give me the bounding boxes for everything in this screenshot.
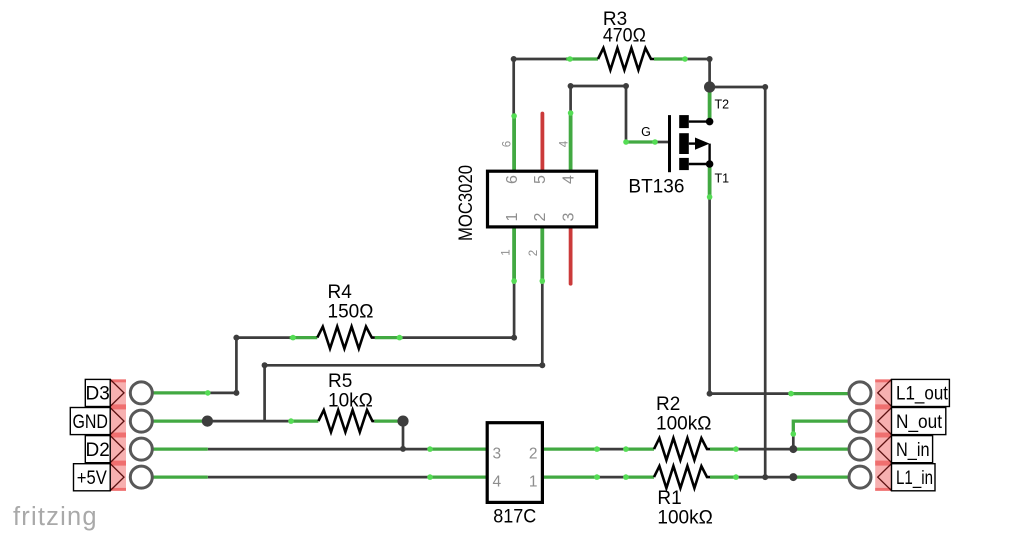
connector J2 chevrons: [878, 379, 892, 490]
svg-text:R5: R5: [328, 371, 352, 392]
op-amp U1 MOC3020 optocoupler body: [456, 165, 597, 241]
svg-text:100kΩ: 100kΩ: [656, 414, 711, 435]
wire: R5 output drop to D2 row: [402, 421, 405, 449]
svg-text:R4: R4: [328, 282, 353, 303]
svg-text:2: 2: [529, 446, 538, 463]
svg-text:4: 4: [560, 175, 577, 184]
wire: R2 left green lead: [627, 447, 654, 450]
svg-text:2: 2: [528, 250, 540, 256]
wire: N_out green wire and drop: [793, 421, 849, 436]
resistor R1 100k ohm: [654, 466, 713, 528]
pin numbers U1 outer leg labels: [501, 140, 571, 256]
label box D3: [85, 379, 110, 406]
svg-text:L1_out: L1_out: [896, 384, 949, 405]
green endpoint markers: [205, 56, 796, 480]
wire: 817C pin 2 green lead: [542, 447, 600, 450]
junction node: N_in junction: [789, 445, 797, 453]
wire: MOC pin 5 red unrouted leg: [541, 114, 545, 172]
junction node: pin4 wire corner right: [623, 83, 629, 89]
wire: R3 left lead from MOC pin 6 riser: [514, 59, 566, 114]
junction node: R3 right corner: [707, 56, 713, 62]
junction node: right bus on L1_in: [762, 474, 768, 480]
wire: D2 left green segment: [152, 447, 208, 450]
pin numbers U2: 3 2 4 1: [493, 446, 538, 491]
junction node: R4 left corner: [233, 335, 239, 341]
pin numbers U1 inner top 6 5 4: [504, 175, 577, 184]
label box D2: [85, 436, 110, 463]
junction node: R5 right junction: [397, 416, 408, 427]
svg-text:2: 2: [532, 212, 549, 221]
junction node: R3 left corner: [511, 56, 517, 62]
wire: triac T2 green leg: [708, 90, 712, 122]
wire: +5V left green segment: [152, 475, 208, 478]
wire: gate green segment: [626, 140, 658, 143]
label box +5V: [74, 464, 111, 491]
svg-text:4: 4: [493, 474, 502, 491]
svg-text:150Ω: 150Ω: [328, 302, 374, 323]
wire: +5V green into 817C pin 4: [430, 475, 487, 478]
wire: R4 right lead up to MOC pin 1: [403, 284, 514, 338]
wire: +5V row dark segment: [208, 476, 430, 479]
svg-text:1: 1: [504, 212, 521, 221]
wire: MOC pin 3 red unrouted leg: [569, 227, 573, 284]
transistor Q1 BT136 triac symbol: [668, 115, 710, 172]
svg-text:G: G: [641, 125, 651, 139]
wire: R5 right green lead: [374, 419, 403, 422]
pin numbers U1 inner bottom 1 2 3: [504, 212, 577, 221]
svg-text:T2: T2: [715, 98, 730, 112]
svg-text:MOC3020: MOC3020: [456, 165, 477, 241]
wire: L1_in green to circle: [793, 475, 849, 478]
svg-text:3: 3: [493, 446, 502, 463]
wire: junction to right bus down to L1_in row: [710, 87, 766, 477]
wire: GND green segment: [152, 419, 207, 422]
wire: N_out drop dark part: [792, 436, 795, 449]
wire: triac T1 green leg: [708, 164, 712, 200]
svg-text:4: 4: [558, 140, 570, 147]
svg-text:GND: GND: [72, 412, 108, 433]
wire: triac T1 down to L1_out row: [710, 200, 789, 394]
wire: R2 to N_in junction dark segment: [736, 448, 793, 451]
wire: R1 to L1_in junctions dark segment: [736, 476, 793, 479]
svg-text:D2: D2: [86, 440, 110, 461]
connector J1 chevrons: [110, 379, 124, 490]
junction node: pin2 wire corner left: [262, 362, 268, 368]
wire: R3 left green lead: [566, 57, 598, 60]
wire: MOC pin 2 green leg: [540, 227, 544, 284]
svg-text:10kΩ: 10kΩ: [328, 391, 373, 412]
wire: 817C pin 1 green lead: [542, 475, 600, 478]
svg-text:6: 6: [502, 141, 514, 147]
wire: N_in green to circle: [793, 447, 849, 450]
svg-text:1: 1: [501, 249, 513, 255]
connector J2 terminal circles: [849, 382, 871, 488]
svg-text:1: 1: [529, 474, 538, 491]
svg-text:L1_in: L1_in: [896, 468, 933, 489]
wire: MOC pin 6 green leg: [512, 114, 516, 172]
wire: D2 row dark segment: [208, 448, 430, 451]
svg-text:R2: R2: [656, 394, 680, 415]
wire: MOC pin 2 down and over to GND row: [265, 284, 543, 421]
junction node: L1_in bend: [789, 473, 797, 481]
junction node: L1_out corner: [707, 391, 713, 397]
svg-text:N_out: N_out: [896, 412, 943, 433]
label box N_in: [892, 436, 933, 463]
junction node: D3 corner: [233, 390, 239, 396]
connector J1 terminal circles: [130, 382, 152, 488]
svg-text:D3: D3: [86, 384, 110, 405]
wire: gate stub to triac bar: [658, 141, 669, 144]
junction node: pin2 wire corner right: [539, 362, 545, 368]
junction node: R4 right corner: [511, 335, 517, 341]
junction node: main T2 junction: [704, 81, 715, 92]
wire: D2 green into 817C pin 3: [430, 447, 487, 450]
wire: 817C pin 1 to R1 dark segment: [600, 476, 627, 479]
wire: D3 green segment: [152, 391, 208, 394]
wire: R4 right green lead: [375, 336, 403, 339]
svg-text:470Ω: 470Ω: [603, 26, 646, 47]
wire: 817C pin 2 to R2 dark segment: [600, 448, 627, 451]
junction node: R5 drop on D2 row: [400, 446, 406, 452]
connector J1 left header pads: [110, 379, 126, 490]
svg-text:817C: 817C: [493, 507, 536, 528]
svg-text:3: 3: [560, 212, 577, 221]
op-amp U2 817C optocoupler body: [487, 423, 542, 528]
junction node: pin4 wire corner left: [568, 83, 574, 89]
wire: R4 left green lead: [290, 336, 318, 339]
label box GND: [70, 408, 110, 435]
wire: R5 left green lead: [291, 419, 318, 422]
label box L1_in: [892, 464, 936, 491]
svg-text:5: 5: [532, 175, 549, 184]
wire: MOC pin 4 green leg: [569, 111, 573, 171]
resistor R5 10k ohm: [318, 371, 374, 432]
svg-text:6: 6: [504, 175, 521, 184]
label box N_out: [892, 408, 946, 435]
resistor R3 470 ohm: [598, 9, 654, 70]
transistor Q1 terminal lines: [689, 122, 710, 164]
wire: R2 right green lead: [710, 447, 736, 450]
svg-text:T1: T1: [715, 172, 730, 186]
wire: R4 left lead down to D3 row: [208, 338, 290, 393]
wire: R3 right lead to junction riser: [687, 59, 710, 87]
wire: MOC pin 4 over to gate riser: [571, 86, 626, 142]
resistor R4 150 ohm: [317, 282, 375, 349]
node T1 terminal dot: [706, 160, 714, 168]
svg-text:R1: R1: [657, 488, 681, 509]
node T2 terminal dot: [706, 118, 714, 126]
wire: GND row dark segment to R5: [207, 420, 291, 423]
svg-text:fritzing: fritzing: [13, 503, 98, 531]
wire: MOC pin 1 green leg: [512, 227, 516, 284]
label box L1_out: [892, 379, 950, 406]
connector J2 right header pads: [875, 379, 891, 490]
svg-text:+5V: +5V: [77, 468, 107, 489]
wire: R3 right green lead: [654, 57, 687, 60]
junction node: GND junction left: [202, 416, 213, 427]
wire: L1_out green to circle: [789, 392, 849, 395]
resistor R2 100k ohm: [654, 394, 711, 460]
svg-text:BT136: BT136: [628, 177, 684, 198]
wire: R1 left green lead: [627, 475, 654, 478]
svg-text:100kΩ: 100kΩ: [657, 508, 712, 529]
wire: R1 right green lead: [710, 475, 736, 478]
svg-text:N_in: N_in: [896, 440, 930, 461]
junction node: right bus corner: [762, 84, 768, 90]
